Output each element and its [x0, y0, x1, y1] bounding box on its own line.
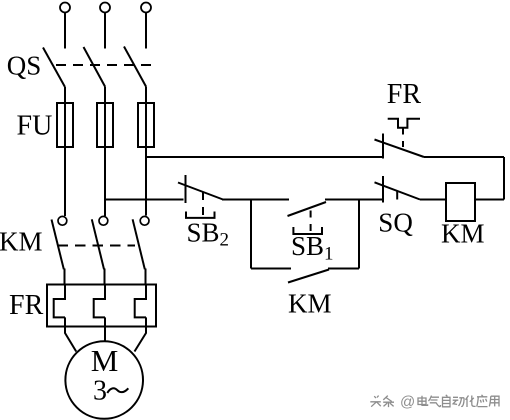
- wire rung2 SB2 to SB1: [222, 199, 289, 201]
- wire motor lead 1: [65, 317, 76, 351]
- contactor KM coupling dashed link: [58, 245, 136, 247]
- svg-text:QS: QS: [7, 50, 42, 80]
- wire rung2 SB1 to SQ: [325, 199, 384, 201]
- svg-text:SB1: SB1: [291, 231, 334, 265]
- wire branch lower right: [328, 268, 359, 270]
- relay FR thermal element symbol: [388, 119, 420, 128]
- relay FR heater element 3: [135, 285, 146, 318]
- relay FR heater box: [47, 285, 156, 327]
- fuse FU pole 2: [97, 103, 113, 147]
- svg-text:KM: KM: [0, 227, 43, 257]
- wire branch lower left: [251, 268, 291, 270]
- relay FR heater element 2: [94, 285, 105, 318]
- button SB1 dashed stem: [310, 211, 312, 234]
- switch QS pole 1 blade: [43, 48, 65, 88]
- wire L1 top drop: [64, 13, 66, 49]
- motor M circle: [65, 341, 143, 419]
- wire KM pole 3 stub: [145, 269, 147, 286]
- button SB2 push bracket: [186, 212, 215, 218]
- label motor tilde: [107, 388, 128, 393]
- svg-text:FR: FR: [9, 290, 44, 321]
- fuse FU pole 1: [57, 103, 73, 147]
- wire motor lead 2: [104, 317, 106, 341]
- svg-text:SB2: SB2: [187, 218, 230, 251]
- wire L3 fuse drop: [145, 87, 147, 216]
- relay FR actuator dashed stem: [402, 129, 404, 149]
- contactor KM pole 2 fixed circle: [99, 216, 108, 225]
- svg-text:FU: FU: [17, 110, 53, 141]
- relay FR contact fixed tick: [382, 134, 384, 159]
- fuse FU pole 3: [138, 103, 154, 147]
- switch QS coupling dashed link: [56, 64, 152, 66]
- svg-text:3: 3: [93, 376, 107, 407]
- svg-text:KM: KM: [441, 219, 485, 249]
- wire KM pole 2 stub: [104, 269, 106, 286]
- contactor KM pole 2 blade: [92, 219, 104, 269]
- contactor KM pole 3 fixed circle: [140, 216, 149, 225]
- contactor KM pole 3 blade: [133, 219, 145, 269]
- watermark: [370, 395, 499, 407]
- wire L2 top drop: [104, 13, 106, 49]
- button SB1 push bracket: [293, 227, 322, 234]
- wire L2 fuse drop: [104, 87, 106, 217]
- switch SQ riser: [396, 191, 398, 200]
- svg-text:@: @: [400, 393, 415, 410]
- switch QS pole 2 blade: [84, 47, 106, 87]
- button SB2 blade: [178, 183, 223, 200]
- terminal L1: [60, 3, 70, 13]
- relay FR heater element 1: [54, 285, 65, 318]
- button SB1 blade: [288, 202, 327, 216]
- contact KM auxiliary blade: [288, 270, 329, 283]
- relay FR contact blade: [375, 140, 425, 158]
- switch QS pole 3 blade: [124, 47, 146, 87]
- node branch left vertical: [250, 200, 252, 269]
- svg-text:KM: KM: [288, 289, 332, 319]
- wire coil to right edge: [475, 199, 504, 201]
- contactor KM pole 1 fixed circle: [58, 216, 67, 225]
- svg-text:SQ: SQ: [378, 208, 413, 238]
- wire control feed top rung left: [146, 156, 384, 158]
- wire L3 top drop: [145, 13, 147, 49]
- wire rung2 from L2: [105, 199, 184, 201]
- coil KM rectangle: [446, 183, 475, 221]
- wire top rung right: [424, 156, 504, 158]
- contactor KM pole 1 blade: [52, 220, 64, 270]
- wire right edge drop: [503, 157, 505, 200]
- button SB2 dashed stem: [202, 192, 204, 216]
- svg-text:FR: FR: [387, 79, 422, 110]
- wire L1 fuse drop: [64, 87, 66, 216]
- switch SQ fixed tick: [382, 176, 384, 203]
- wire motor lead 3: [135, 317, 147, 351]
- wire KM pole 1 stub: [64, 269, 66, 286]
- switch SQ blade: [375, 182, 421, 199]
- terminal L3: [141, 3, 151, 13]
- wire SQ to coil: [420, 199, 446, 201]
- node branch right vertical: [358, 200, 360, 269]
- svg-text:M: M: [91, 343, 119, 378]
- terminal L2: [100, 3, 110, 13]
- button SB2 fixed tick: [185, 175, 187, 203]
